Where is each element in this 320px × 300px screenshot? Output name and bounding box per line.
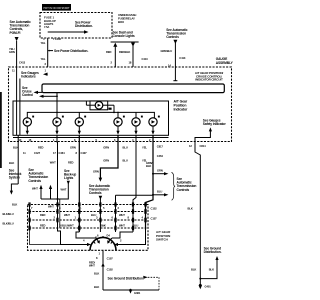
ground G401 bbox=[199, 279, 212, 290]
switch pin numbers bbox=[31, 206, 144, 228]
arrow down wire RED/BLK bbox=[131, 43, 135, 47]
svg-text:SWITCH: SWITCH bbox=[156, 238, 168, 242]
svg-text:YEL: YEL bbox=[142, 145, 147, 149]
svg-text:BLK: BLK bbox=[12, 203, 17, 207]
cruise branch arrow on lamp feed wire bbox=[39, 95, 44, 98]
svg-text:Control: Control bbox=[22, 93, 33, 97]
rotary switch wiper arc bbox=[90, 237, 116, 250]
svg-text:Y C403: Y C403 bbox=[53, 37, 62, 41]
title: A/T gear position / cruise control indicator circuit bbox=[195, 71, 223, 82]
interlock branch wire with arrow bbox=[11, 184, 18, 191]
switch position row 1 bbox=[29, 211, 147, 213]
svg-text:Controls: Controls bbox=[89, 191, 102, 195]
svg-text:Indicator: Indicator bbox=[174, 107, 188, 111]
diagonal feeds into rotary switch with arrows bbox=[87, 238, 118, 246]
svg-text:C157: C157 bbox=[151, 217, 158, 221]
svg-text:C817: C817 bbox=[157, 145, 164, 149]
indicator lamp D3 bbox=[132, 116, 143, 135]
note: see automatic transmission controls (mid, on D4 wire) bbox=[89, 135, 118, 212]
branch to ground distribution right bbox=[199, 256, 218, 280]
svg-text:GRN: GRN bbox=[103, 145, 109, 149]
indicator lamp 2 bbox=[149, 116, 160, 135]
switch position row 3 bbox=[29, 227, 147, 229]
svg-text:C152: C152 bbox=[151, 207, 158, 211]
ground run wire bbox=[103, 289, 159, 291]
fuse box (dashed) FUSE 1 bbox=[40, 13, 112, 39]
gauge exit wires to switch bbox=[17, 135, 19, 184]
svg-text:GRN: GRN bbox=[93, 170, 99, 174]
svg-text:BLK/BLU: BLK/BLU bbox=[3, 222, 14, 226]
arrow down into wire from transmission controls bbox=[15, 37, 19, 41]
arrow left to gauges indicators from YEL wire bbox=[43, 73, 48, 76]
switch entry pin ticks bbox=[29, 203, 146, 206]
svg-text:BLK: BLK bbox=[188, 207, 193, 211]
svg-text:G381: G381 bbox=[134, 291, 141, 295]
svg-text:11: 11 bbox=[23, 151, 26, 155]
svg-text:C102: C102 bbox=[107, 268, 114, 272]
svg-text:12: 12 bbox=[189, 144, 192, 148]
svg-text:YEL: YEL bbox=[41, 57, 46, 61]
svg-text:2: 2 bbox=[118, 206, 120, 210]
svg-text:BLU: BLU bbox=[123, 145, 128, 149]
lamp bus line bbox=[27, 112, 154, 118]
svg-text:Distribution.: Distribution. bbox=[204, 250, 222, 254]
svg-text:D4: D4 bbox=[107, 234, 111, 238]
arrow up wire RED bbox=[113, 43, 117, 47]
contact ticks on rows bbox=[29, 210, 146, 230]
svg-text:C413: C413 bbox=[179, 56, 186, 60]
svg-text:C814: C814 bbox=[200, 144, 207, 148]
svg-text:PGM-FI: PGM-FI bbox=[10, 31, 21, 35]
svg-text:ASSEMBLY: ASSEMBLY bbox=[216, 61, 234, 65]
svg-text:Controls: Controls bbox=[166, 35, 179, 39]
note: see interlock system bbox=[9, 169, 22, 180]
note: see cruise control bbox=[22, 86, 33, 97]
svg-text:BLU/WHT: BLU/WHT bbox=[62, 224, 74, 228]
svg-text:11: 11 bbox=[12, 69, 15, 73]
svg-text:Console Lights: Console Lights bbox=[113, 34, 135, 38]
svg-text:1: 1 bbox=[75, 215, 77, 219]
lamp feed wire from bus bar bbox=[56, 92, 58, 118]
svg-text:RED: RED bbox=[106, 50, 112, 54]
wire from safety indicator note to pin 12 bbox=[209, 127, 212, 131]
svg-text:RED: RED bbox=[68, 161, 74, 165]
svg-text:Indicators: Indicators bbox=[21, 75, 36, 79]
ground G381 bbox=[129, 289, 141, 295]
svg-text:BLK: BLK bbox=[101, 224, 106, 228]
indicator panel solid box bbox=[13, 101, 169, 135]
svg-text:BLK: BLK bbox=[146, 164, 151, 168]
note: A/T gear position indicator bbox=[174, 100, 188, 112]
svg-text:5: 5 bbox=[103, 206, 105, 210]
svg-text:2: 2 bbox=[120, 239, 122, 243]
A/T gear position switch box (dashed) bbox=[28, 205, 149, 251]
wire colour labels inside switch bbox=[40, 205, 138, 228]
svg-text:HOT IN ON OR START: HOT IN ON OR START bbox=[44, 7, 70, 10]
svg-text:BLU: BLU bbox=[133, 224, 138, 228]
arc pin labels bbox=[83, 234, 122, 243]
switch common wire bbox=[102, 250, 104, 290]
wire colour labels row 1 bbox=[13, 145, 147, 149]
svg-text:4: 4 bbox=[83, 239, 85, 243]
svg-text:6: 6 bbox=[112, 215, 114, 219]
wire YEL/GRN from C413 pin 11 bbox=[16, 41, 18, 67]
svg-text:WHT: WHT bbox=[64, 213, 70, 217]
indicator lamp P bbox=[23, 116, 34, 135]
svg-text:C413: C413 bbox=[19, 61, 26, 65]
indicator lamp D4 bbox=[114, 116, 125, 135]
svg-text:Distribution.: Distribution. bbox=[75, 24, 93, 28]
right wire from C814 down bbox=[195, 148, 200, 279]
arrow up on common wire bbox=[101, 263, 104, 267]
D4 indicator lamp box bbox=[86, 101, 115, 113]
svg-text:6: 6 bbox=[97, 234, 99, 238]
svg-text:Lights: Lights bbox=[64, 176, 73, 180]
wire GRN/BLU bbox=[174, 43, 176, 81]
gauge assembly box (dashed) bbox=[9, 67, 232, 142]
note: see gauges safety indicator bbox=[203, 118, 227, 126]
svg-text:BOX: BOX bbox=[118, 20, 124, 24]
svg-text:3: 3 bbox=[96, 215, 98, 219]
svg-text:BLU: BLU bbox=[157, 190, 162, 194]
up arrows to transmission controls note bbox=[39, 185, 42, 189]
svg-text:C427: C427 bbox=[34, 151, 41, 155]
svg-text:7.5A: 7.5A bbox=[44, 25, 49, 29]
arrow inside fuse box to power distribution bbox=[48, 31, 84, 33]
svg-text:4: 4 bbox=[43, 37, 45, 41]
note: see automatic transmission controls (top right) bbox=[166, 28, 188, 39]
svg-text:Controls: Controls bbox=[177, 188, 190, 192]
svg-text:WHT: WHT bbox=[50, 161, 56, 165]
svg-text:GRN: GRN bbox=[157, 169, 163, 173]
svg-text:2: 2 bbox=[45, 62, 47, 66]
svg-text:1: 1 bbox=[80, 206, 82, 210]
svg-text:System: System bbox=[9, 176, 20, 180]
note: see automatic transmission controls (top left) bbox=[10, 20, 32, 35]
svg-text:9: 9 bbox=[133, 206, 135, 210]
see power distribution tap bbox=[48, 50, 50, 52]
svg-text:8: 8 bbox=[128, 215, 130, 219]
gauge assembly label bbox=[216, 57, 234, 65]
svg-text:See Ground Distribution.: See Ground Distribution. bbox=[108, 276, 144, 280]
svg-text:WHT: WHT bbox=[32, 187, 38, 191]
wire colour labels row 2 bbox=[9, 159, 147, 166]
note: see dash and console lights bbox=[113, 31, 135, 39]
svg-text:BLU: BLU bbox=[123, 159, 128, 163]
note: see ground distribution (right) bbox=[204, 247, 222, 255]
svg-text:BLK: BLK bbox=[9, 161, 14, 165]
indicator lamp N bbox=[75, 116, 86, 135]
printed circuit bus bar bbox=[42, 84, 224, 93]
brace cluster: wire to automatic transmission controls (right) bbox=[146, 161, 196, 200]
svg-text:WHT: WHT bbox=[61, 188, 67, 192]
svg-text:BLK: BLK bbox=[94, 272, 99, 276]
back-up lights branch wire bbox=[67, 181, 70, 185]
connector labels C427 / C464 bbox=[23, 151, 87, 155]
svg-text:RED: RED bbox=[40, 213, 46, 217]
svg-text:C464: C464 bbox=[157, 154, 164, 158]
svg-text:18: 18 bbox=[129, 60, 132, 64]
svg-text:8: 8 bbox=[96, 256, 98, 260]
switch contact columns bbox=[30, 195, 146, 232]
dashed loop to ground distribution bbox=[143, 276, 159, 290]
svg-text:C107: C107 bbox=[107, 256, 114, 260]
svg-text:BLU: BLU bbox=[91, 213, 96, 217]
svg-text:C427: C427 bbox=[81, 151, 88, 155]
pin strip line under panel bbox=[13, 137, 169, 139]
svg-text:RED: RED bbox=[40, 224, 46, 228]
svg-text:Controls: Controls bbox=[28, 179, 41, 183]
svg-text:YEL: YEL bbox=[41, 41, 46, 45]
wire YEL from fuse to gauge assembly bbox=[47, 38, 49, 67]
svg-text:WHT: WHT bbox=[89, 264, 95, 268]
lamp stubs bbox=[56, 112, 58, 118]
wire loop feeding rotary contacts bbox=[30, 230, 146, 245]
svg-text:2: 2 bbox=[111, 60, 113, 64]
note: under-dash fuse/relay box bbox=[118, 13, 136, 24]
svg-text:7: 7 bbox=[31, 206, 33, 210]
note: see back-up lights bbox=[64, 169, 76, 180]
arc contact ticks bbox=[94, 236, 113, 244]
svg-text:GRN: GRN bbox=[103, 159, 109, 163]
indicator lamp R bbox=[53, 116, 64, 135]
note: see automatic transmission controls (mid left) bbox=[28, 168, 48, 183]
svg-text:C413: C413 bbox=[142, 57, 149, 61]
wire colour labels left of switch bbox=[3, 203, 18, 226]
svg-text:BLK: BLK bbox=[209, 268, 214, 272]
svg-text:GRN: GRN bbox=[70, 145, 76, 149]
svg-text:BLK/BLU: BLK/BLU bbox=[3, 212, 14, 216]
svg-text:WHT: WHT bbox=[119, 213, 125, 217]
svg-text:G401: G401 bbox=[205, 285, 212, 289]
svg-text:Safety Indicator: Safety Indicator bbox=[203, 122, 227, 126]
A/T gear position switch label bbox=[156, 230, 171, 242]
svg-text:BLK: BLK bbox=[191, 268, 196, 272]
switch position row 2 bbox=[29, 219, 147, 221]
svg-text:8: 8 bbox=[76, 151, 78, 155]
svg-text:RED: RED bbox=[38, 145, 44, 149]
svg-text:WHT: WHT bbox=[119, 224, 125, 228]
arrow down into wire (right) bbox=[173, 40, 177, 44]
svg-text:GRN/BLU: GRN/BLU bbox=[161, 49, 173, 53]
svg-text:1: 1 bbox=[45, 69, 47, 73]
svg-text:INDICATOR CIRCUIT: INDICATOR CIRCUIT bbox=[195, 78, 223, 82]
svg-text:GRN: GRN bbox=[9, 50, 15, 54]
svg-text:See Power Distribution.: See Power Distribution. bbox=[54, 49, 88, 53]
svg-text:4: 4 bbox=[142, 215, 144, 219]
svg-text:17: 17 bbox=[53, 151, 56, 155]
svg-text:2: 2 bbox=[54, 215, 56, 219]
svg-text:1: 1 bbox=[99, 252, 101, 256]
svg-text:WHT: WHT bbox=[48, 205, 54, 209]
pin numbers under panel bbox=[19, 138, 152, 142]
svg-text:BLK: BLK bbox=[94, 285, 99, 289]
black header HOT IN ON OR START bbox=[42, 4, 71, 11]
note: see gauges indicators bbox=[21, 71, 39, 79]
junction bar under console lights note bbox=[111, 41, 139, 43]
dimmer wire inside panel bbox=[16, 67, 18, 135]
svg-text:FUSE 1: FUSE 1 bbox=[44, 16, 55, 20]
svg-text:BLK: BLK bbox=[13, 145, 18, 149]
svg-text:RED/BLK: RED/BLK bbox=[119, 50, 130, 54]
svg-text:3: 3 bbox=[59, 206, 61, 210]
svg-text:C464: C464 bbox=[59, 151, 66, 155]
arrow left from bus bar to cruise control bbox=[34, 91, 39, 94]
page edge line (scan) bbox=[0, 92, 2, 168]
